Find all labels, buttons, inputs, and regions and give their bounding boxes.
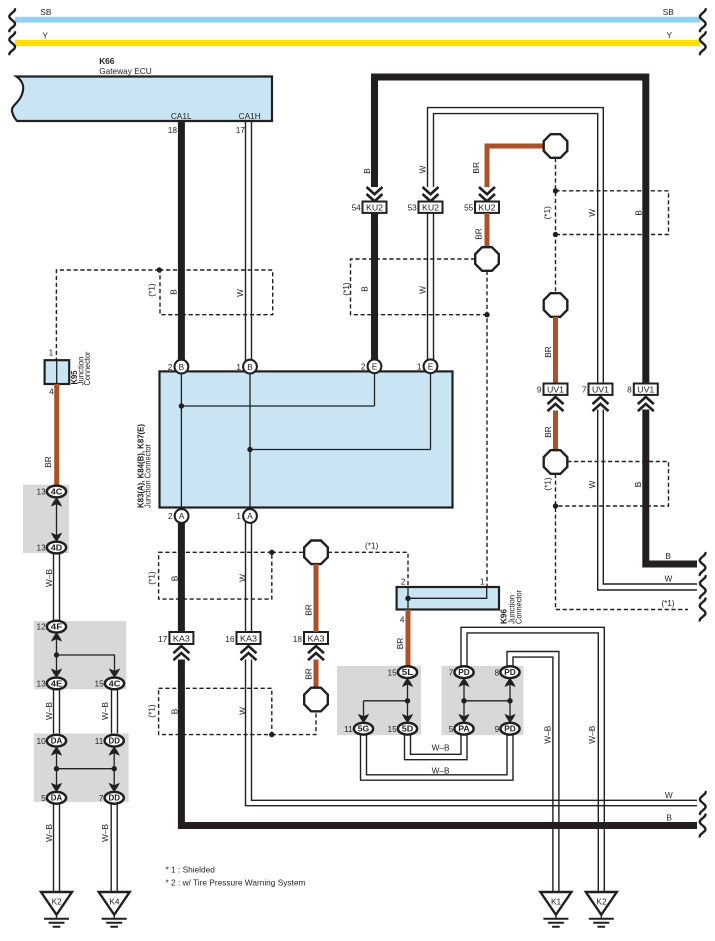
wire W-B 4C to DD: [112, 689, 118, 735]
wire W-B 5G to 9 PD: [361, 735, 514, 781]
svg-text:1: 1: [480, 577, 485, 587]
node dot box5 top-right: [269, 550, 274, 555]
pin oval 13 4C: [36, 486, 66, 498]
svg-text:15: 15: [94, 679, 104, 689]
pin oval 15 4C: [94, 678, 124, 690]
connector 16 KA3: [225, 632, 260, 660]
node dot K96 internal: [405, 596, 410, 601]
svg-text:Connector: Connector: [82, 351, 92, 385]
arrow up to 10 DA: [51, 747, 62, 756]
svg-text:8: 8: [495, 667, 500, 677]
svg-text:55: 55: [464, 202, 474, 212]
svg-text:13: 13: [36, 487, 46, 497]
wire W-B 4E to DA: [54, 689, 60, 735]
svg-text:54: 54: [352, 202, 362, 212]
wire W-B 8 PD up over to ground K1: [507, 652, 559, 893]
node dot G3 left: [54, 766, 59, 771]
wire BR 55 KU2 down to shield octagon: [485, 213, 490, 248]
internal wire 7PD down: [463, 678, 465, 723]
svg-text:W: W: [238, 707, 248, 715]
svg-text:W: W: [238, 574, 248, 582]
svg-text:B: B: [170, 708, 180, 714]
internal wire 5L down: [407, 678, 409, 723]
gray block G3: [34, 733, 129, 802]
shield octagon O4: [475, 247, 499, 271]
svg-text:B: B: [170, 575, 180, 581]
svg-text:9: 9: [537, 385, 542, 395]
wire BR 9 UV1 down to octagon O3: [553, 411, 558, 452]
wire W (CA1H) upper segment: [246, 121, 252, 361]
svg-text:(*1): (*1): [147, 704, 157, 718]
node dot G4: [405, 698, 410, 703]
svg-text:K66: K66: [99, 56, 115, 66]
wire BR K96 pin4 to 5L: [406, 610, 411, 667]
svg-text:DD: DD: [108, 793, 120, 803]
svg-text:BR: BR: [43, 456, 53, 468]
arrow down to 5G: [358, 714, 369, 723]
pin oval 7 PD: [449, 666, 474, 678]
node dot box6 bottom-right: [269, 732, 274, 737]
svg-text:13: 13: [36, 679, 46, 689]
svg-text:E: E: [428, 362, 434, 372]
svg-text:5: 5: [41, 793, 46, 803]
svg-text:BR: BR: [304, 604, 314, 616]
svg-text:A: A: [247, 511, 253, 521]
svg-text:15: 15: [387, 724, 397, 734]
svg-text:2: 2: [401, 577, 406, 587]
wire W-B 7 DD to ground K4: [111, 804, 117, 892]
gray block G4: [337, 666, 421, 735]
svg-text:BR: BR: [474, 228, 484, 240]
wire W below 7 UV1 to right exit: [598, 410, 697, 591]
arrow down to 5 PA: [458, 714, 469, 723]
pin oval 5 DA: [41, 792, 66, 804]
junction connector K83(A) K84(B) K87(E) box: [135, 371, 452, 508]
shield octagon O2: [544, 293, 568, 317]
shield box5: [159, 552, 272, 599]
internal wire branch to 4C: [57, 655, 115, 678]
svg-text:UV1: UV1: [637, 385, 654, 395]
node dot on shield top-right box upper: [553, 188, 558, 193]
svg-text:7: 7: [99, 793, 104, 803]
svg-text:1: 1: [236, 362, 241, 372]
svg-text:18: 18: [293, 634, 303, 644]
svg-text:W–B: W–B: [44, 569, 54, 587]
svg-text:4: 4: [49, 387, 54, 397]
wire B bottom-right break: [700, 815, 706, 837]
svg-text:15: 15: [387, 667, 397, 677]
svg-text:DA: DA: [51, 736, 63, 746]
wire B (CA1L) mid segment A1 to 17 KA3: [178, 523, 185, 633]
bus Y right break: [700, 32, 706, 54]
pin oval 7 DD: [99, 792, 124, 804]
wire B loop 54 KU2 over to 8 UV1: [375, 77, 646, 384]
svg-text:* 1 : Shielded: * 1 : Shielded: [166, 865, 216, 875]
wire W (CA1H) lower segment to bottom W bus exit: [246, 660, 698, 806]
svg-text:17: 17: [236, 125, 246, 135]
svg-text:W: W: [418, 165, 428, 173]
svg-text:SB: SB: [663, 7, 675, 17]
svg-text:Gateway ECU: Gateway ECU: [99, 66, 152, 76]
svg-text:W–B: W–B: [100, 702, 110, 720]
wire W bottom break: [700, 792, 706, 814]
internal wire DA col: [56, 747, 58, 792]
wire B (CA1L) lower segment to bottom-right exit: [181, 660, 697, 826]
shield wire dashed O3 down to right exit: [556, 474, 689, 610]
svg-text:K2: K2: [52, 897, 63, 907]
internal wire B2-A2: [249, 373, 251, 510]
arrow down to 5D: [402, 714, 413, 723]
shield dashed O5 to K96 pin 2: [328, 552, 408, 587]
svg-text:5L: 5L: [402, 667, 414, 677]
internal stub E2: [430, 373, 432, 450]
node dot G5 left: [461, 698, 466, 703]
shield wire dashed to K95: [56, 270, 159, 360]
shield box right-top: [556, 191, 669, 235]
arrow down to 7 DD: [109, 783, 120, 792]
svg-text:PD: PD: [458, 667, 470, 677]
internal wire PD bridge: [464, 700, 510, 702]
node dot under O4: [484, 312, 489, 317]
pin oval 12 4F: [36, 621, 66, 633]
node dot G2: [54, 652, 59, 657]
shield wire dashed O1 to O2: [555, 158, 557, 293]
junction connector K95: [45, 348, 92, 397]
svg-text:B: B: [633, 481, 643, 487]
svg-text:KU2: KU2: [366, 203, 383, 213]
wire W branch E2 up to 53 KU2: [428, 213, 434, 361]
bus SB left break: [9, 9, 15, 31]
internal stub E1: [374, 373, 376, 406]
svg-text:KA3: KA3: [308, 634, 325, 644]
svg-text:K1: K1: [551, 897, 562, 907]
pin oval 11 5G: [344, 723, 373, 735]
svg-text:10: 10: [36, 736, 46, 746]
junction connector K96: [397, 577, 524, 625]
wire BR 55 KU2 up and over to octagon: [487, 146, 544, 187]
shield octagon O1 top right: [544, 134, 568, 158]
svg-text:B: B: [665, 551, 671, 561]
svg-text:4C: 4C: [109, 678, 121, 688]
svg-text:B: B: [247, 362, 253, 372]
arrow down to 4E: [51, 668, 62, 677]
gray block G1: [23, 485, 69, 553]
svg-text:4E: 4E: [51, 678, 63, 688]
svg-text:7: 7: [582, 385, 587, 395]
node dot G5 right: [507, 698, 512, 703]
arrow down to 4C lower: [109, 668, 120, 677]
shield dashed box5 to octagon O5: [272, 551, 304, 553]
svg-text:Junction Connector: Junction Connector: [143, 444, 153, 508]
ground K1: [540, 892, 571, 927]
shield box right-mid: [556, 462, 669, 507]
svg-text:KU2: KU2: [479, 203, 496, 213]
shield dashed box6 to O6: [272, 711, 316, 734]
connector 9 UV1: [537, 384, 568, 412]
wire W-B 5 DA to ground K2: [54, 804, 60, 892]
svg-text:12: 12: [36, 622, 46, 632]
svg-text:BR: BR: [304, 668, 314, 680]
pin oval 15 5L: [387, 666, 417, 678]
svg-text:5D: 5D: [402, 724, 414, 734]
wire B (CA1L) upper segment: [178, 121, 185, 361]
svg-text:Y: Y: [667, 30, 673, 40]
svg-text:W: W: [665, 790, 673, 800]
svg-text:E: E: [372, 362, 378, 372]
connector 18 KA3: [293, 632, 328, 660]
svg-text:W–B: W–B: [44, 824, 54, 842]
pin oval 9 PD: [495, 723, 520, 735]
svg-text:B: B: [179, 362, 185, 372]
pin oval 8 PD: [495, 666, 520, 678]
svg-text:SB: SB: [40, 7, 52, 17]
internal wire DA-DD bridge: [57, 768, 115, 770]
svg-text:4D: 4D: [51, 542, 63, 552]
gray block G5: [442, 666, 524, 735]
svg-text:11: 11: [344, 724, 353, 734]
node dot box3 top-left: [157, 267, 162, 272]
svg-text:W–B: W–B: [543, 725, 553, 743]
pin circle 2 A: [168, 509, 189, 523]
arrow up to 4F: [51, 633, 62, 642]
shield box top-mid around B/W wires: [351, 259, 488, 315]
svg-text:DA: DA: [51, 793, 63, 803]
arrow down to 4D: [51, 533, 62, 542]
shield octagon O5: [304, 541, 328, 565]
internal wire node2 to E2: [250, 449, 431, 451]
connector 54 KU2: [352, 187, 387, 213]
svg-text:4C: 4C: [51, 486, 63, 496]
connector 17 KA3: [158, 632, 193, 660]
pin circle 1 A: [236, 509, 257, 523]
pin circle 1 E: [417, 359, 438, 373]
svg-text:PD: PD: [504, 724, 516, 734]
svg-text:16: 16: [225, 634, 235, 644]
svg-text:(*1): (*1): [147, 283, 157, 297]
ground K2 left: [41, 892, 72, 927]
svg-text:(*1): (*1): [365, 541, 379, 551]
arrow down to 5 DA: [51, 783, 62, 792]
shield box6: [159, 688, 272, 734]
shield dashed right exit break: [700, 599, 706, 621]
svg-text:W: W: [235, 289, 245, 297]
svg-text:W: W: [587, 480, 597, 488]
pin oval 13 4E: [36, 678, 66, 690]
bus Y: [15, 30, 700, 46]
svg-text:B: B: [360, 286, 370, 292]
connector 53 KU2: [408, 187, 443, 213]
wire W-B 7 PD up over to ground K2 right: [461, 627, 604, 892]
svg-text:(*1): (*1): [147, 571, 157, 585]
svg-text:BR: BR: [543, 346, 553, 358]
internal wire node1 to E1: [181, 405, 374, 407]
svg-text:7: 7: [449, 667, 454, 677]
pin circle 1 B: [236, 360, 257, 374]
bus SB right break: [700, 9, 706, 31]
svg-text:PD: PD: [504, 667, 516, 677]
connector 7 UV1: [582, 384, 613, 412]
shield octagon O6: [304, 688, 328, 712]
wire B right exit break: [700, 553, 706, 575]
pin oval 11 DD: [95, 735, 124, 747]
pin oval 10 DA: [36, 735, 66, 747]
svg-text:KA3: KA3: [173, 634, 190, 644]
svg-text:13: 13: [36, 543, 46, 553]
arrow down to 9 PD: [504, 714, 515, 723]
svg-text:K2: K2: [596, 897, 607, 907]
svg-text:K4: K4: [109, 897, 120, 907]
svg-text:W: W: [664, 574, 672, 584]
svg-text:BR: BR: [395, 638, 405, 650]
wire BR 18 KA3 to octagon O6: [314, 660, 319, 689]
svg-text:2: 2: [168, 362, 173, 372]
arrow up to 7 PD: [458, 678, 469, 687]
svg-text:CA1H: CA1H: [239, 111, 261, 121]
pin oval 15 5D: [387, 723, 417, 735]
connector 8 UV1: [627, 384, 658, 412]
wire W-B 5D to 5 PA: [405, 735, 468, 760]
node dot G3 right: [112, 766, 117, 771]
ground K2 right: [586, 892, 617, 927]
ground K4 left: [99, 892, 130, 927]
svg-text:W: W: [417, 286, 427, 294]
svg-text:A: A: [179, 511, 185, 521]
svg-text:1: 1: [49, 348, 54, 358]
svg-text:B: B: [633, 210, 643, 216]
wire W (CA1H) mid segment A2 to 16 KA3: [246, 522, 252, 632]
svg-text:9: 9: [495, 724, 500, 734]
svg-text:1: 1: [417, 362, 422, 372]
node dot K83 internal 1: [179, 403, 184, 408]
svg-text:4: 4: [400, 615, 405, 625]
pin circle 2 B: [168, 360, 189, 374]
shield octagon O3: [544, 450, 568, 474]
bus SB: [15, 7, 700, 22]
svg-text:(*1): (*1): [341, 282, 351, 296]
arrow up to 5L: [402, 678, 413, 687]
svg-text:2: 2: [361, 362, 366, 372]
svg-text:W–B: W–B: [432, 765, 450, 775]
svg-text:W–B: W–B: [432, 742, 450, 752]
bus Y left break: [9, 32, 15, 54]
internal wire 4F down: [56, 633, 58, 678]
node dot on shield top-right box lower: [553, 232, 558, 237]
wire W-B 4D to 4F: [54, 553, 60, 622]
internal wire B1-A1: [180, 373, 182, 510]
gray block G2: [34, 621, 127, 689]
svg-text:B: B: [362, 168, 372, 174]
internal wire 4C-4D: [56, 498, 58, 542]
internal wire 8PD down: [509, 678, 511, 723]
wire BR K95 pin4 to 4C: [54, 384, 59, 486]
svg-text:BR: BR: [543, 426, 553, 438]
svg-text:4F: 4F: [51, 622, 63, 632]
svg-text:W: W: [587, 209, 597, 217]
wire W loop 53 KU2 over to 7 UV1: [428, 108, 604, 384]
shield wire dashed O4 down to K96 pin 1: [486, 271, 488, 587]
svg-text:UV1: UV1: [547, 385, 564, 395]
wire B branch E1 up to 54 KU2: [371, 213, 378, 361]
node dot K83 internal 2: [247, 447, 252, 452]
svg-text:KA3: KA3: [240, 634, 257, 644]
wire BR O2 down to 9 UV1: [553, 317, 558, 384]
svg-text:Connector: Connector: [514, 590, 524, 624]
svg-text:W–B: W–B: [587, 725, 597, 743]
svg-text:B: B: [169, 289, 179, 295]
svg-text:CA1L: CA1L: [171, 111, 192, 121]
arrow up to 8 PD: [504, 678, 515, 687]
shield box around main B/W wires upper: [159, 270, 272, 315]
connector 55 KU2: [464, 187, 499, 213]
svg-text:* 2 : w/ Tire Pressure Warning: * 2 : w/ Tire Pressure Warning System: [166, 878, 306, 888]
svg-text:17: 17: [158, 634, 168, 644]
pin oval 13 4D: [36, 542, 66, 554]
svg-text:B: B: [666, 812, 672, 822]
svg-text:UV1: UV1: [592, 385, 609, 395]
svg-text:11: 11: [95, 736, 104, 746]
svg-text:BR: BR: [471, 162, 481, 174]
svg-text:DD: DD: [108, 736, 120, 746]
ECU K66 Gateway ECU: [12, 56, 272, 121]
pin circle 2 E: [361, 359, 382, 373]
svg-text:53: 53: [408, 202, 418, 212]
svg-text:(*1): (*1): [543, 477, 553, 491]
svg-text:PA: PA: [458, 724, 470, 734]
node dot on shield right-mid box: [553, 503, 558, 508]
arrow up to 11 DD: [109, 747, 120, 756]
svg-text:W–B: W–B: [44, 702, 54, 720]
wire B below 8 UV1 to right exit: [646, 410, 697, 565]
svg-text:KU2: KU2: [422, 203, 439, 213]
svg-text:2: 2: [168, 511, 173, 521]
svg-text:W–B: W–B: [100, 824, 110, 842]
pin oval 5 PA: [449, 723, 474, 735]
svg-text:1: 1: [236, 511, 241, 521]
internal wire branch to 5G: [364, 700, 408, 702]
wire W right exit break: [700, 576, 706, 598]
svg-text:8: 8: [627, 385, 632, 395]
wire BR O5 to 18 KA3: [314, 564, 319, 632]
svg-text:(*1): (*1): [542, 206, 552, 220]
svg-text:5G: 5G: [358, 724, 370, 734]
internal wire DD col: [113, 747, 115, 792]
svg-text:(*1): (*1): [661, 598, 675, 608]
arrow up to 4C: [51, 498, 62, 507]
svg-text:5: 5: [449, 724, 454, 734]
svg-text:18: 18: [168, 125, 178, 135]
svg-text:Y: Y: [42, 30, 48, 40]
